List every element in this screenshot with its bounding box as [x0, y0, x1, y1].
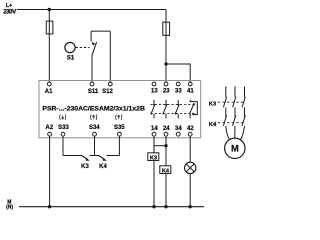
bridge wire 14 to 24	[154, 145, 166, 147]
contactor K3 main contacts	[223, 97, 245, 118]
svg-text:A1: A1	[45, 89, 53, 95]
svg-text:33: 33	[175, 89, 182, 95]
device box PSR relay	[39, 81, 201, 138]
wire K3 coil to neutral	[153, 161, 155, 207]
svg-text:42: 42	[187, 126, 194, 132]
node junction K4/neutral	[164, 205, 167, 208]
contactor coil K3	[148, 153, 159, 161]
terminal S11	[90, 82, 94, 86]
wire K4 coil to neutral	[165, 174, 167, 207]
aux contact K4 blade	[99, 156, 105, 160]
svg-text:PSR-...-230AC/ESAM2/3x1/1x2B: PSR-...-230AC/ESAM2/3x1/1x2B	[42, 106, 145, 113]
mechanical linkage dashed lines inside relay	[151, 104, 198, 106]
wire 14 drop	[153, 136, 155, 153]
estop top bar	[91, 30, 110, 32]
feedback loop wire segments	[63, 155, 82, 157]
svg-text:S11: S11	[88, 89, 99, 95]
wire 24 drop	[165, 136, 167, 166]
terminal 34	[176, 132, 180, 136]
pushbutton S1 (emergency stop actuator)	[65, 42, 75, 52]
relay NO contact 23-24	[163, 100, 167, 119]
svg-text:S1: S1	[67, 56, 75, 62]
svg-text:K3: K3	[209, 101, 217, 107]
wire S34 drop	[94, 136, 96, 155]
relay NO contact 13-14	[151, 100, 155, 119]
terminal 23	[164, 82, 168, 86]
svg-text:S35: S35	[114, 125, 125, 131]
wire S12	[109, 31, 111, 82]
wire S11	[91, 56, 93, 83]
neutral rail M/N	[19, 206, 204, 208]
dashed linkage K3 contacts	[218, 101, 244, 103]
three-phase feeder wires	[226, 86, 245, 97]
node junction lamp/neutral	[189, 205, 192, 208]
terminal S35	[118, 132, 122, 136]
terminal 24	[164, 132, 168, 136]
svg-text:K4: K4	[162, 168, 170, 174]
node junction for 41 branch	[164, 62, 167, 65]
estop NC contact blade	[92, 42, 97, 56]
svg-text:34: 34	[175, 126, 182, 132]
svg-text:(N): (N)	[6, 204, 13, 210]
terminal 41	[188, 82, 192, 86]
svg-text:S33: S33	[58, 125, 69, 131]
indicator lamp	[185, 162, 196, 173]
contactor coil K4	[160, 166, 171, 174]
svg-text:14: 14	[151, 126, 158, 132]
aux contact K3 blade	[82, 156, 88, 160]
svg-text:K3: K3	[150, 155, 157, 161]
terminal 42	[188, 132, 192, 136]
svg-text:41: 41	[187, 89, 194, 95]
svg-text:S12: S12	[102, 89, 113, 95]
wire branch to terminal 41	[166, 64, 190, 82]
motor M	[225, 138, 245, 158]
node junction on 24 wire	[164, 144, 167, 147]
fuse F2	[163, 22, 170, 35]
svg-text:K3: K3	[81, 164, 89, 170]
label arrow up over S35	[116, 114, 122, 120]
terminal 13	[152, 82, 156, 86]
wire A1 drop (through fuse)	[48, 10, 50, 83]
svg-text:M: M	[231, 143, 239, 154]
terminal A2	[48, 132, 52, 136]
label arrow up over S34	[91, 114, 97, 120]
relay NO contact 33-34	[175, 100, 179, 119]
wire 23 drop (through fuse)	[165, 10, 167, 83]
dashed actuator link	[76, 47, 90, 49]
node junction on rail at A1 branch	[48, 8, 51, 11]
terminal S34	[93, 132, 97, 136]
wire S35 drop	[118, 136, 120, 155]
terminal A1	[47, 82, 51, 86]
contactor K4 main contacts	[223, 115, 245, 126]
estop contact arrowhead	[92, 42, 96, 46]
estop fixed stub	[90, 31, 92, 41]
node junction A2/neutral	[48, 205, 51, 208]
fuse F1	[46, 21, 53, 34]
svg-text:24: 24	[163, 126, 170, 132]
svg-text:23: 23	[163, 89, 170, 95]
svg-text:K4: K4	[209, 122, 217, 128]
svg-text:K4: K4	[99, 164, 107, 170]
terminal S33	[61, 132, 65, 136]
svg-text:S34: S34	[89, 125, 100, 131]
svg-text:230V: 230V	[3, 9, 17, 16]
supply rail L+	[17, 9, 166, 11]
node junction K3/neutral	[152, 205, 155, 208]
relay NC contact 41-42	[189, 100, 197, 119]
dashed linkage K4 contacts	[218, 122, 244, 124]
svg-text:13: 13	[151, 89, 158, 95]
wire S33 drop	[62, 136, 64, 155]
terminal 33	[176, 82, 180, 86]
terminal S12	[108, 82, 112, 86]
wire lamp to neutral	[189, 174, 191, 207]
label arrow down over S33	[60, 114, 66, 120]
motor feeder curves	[226, 126, 245, 140]
svg-text:A2: A2	[45, 125, 53, 131]
terminal 14	[152, 132, 156, 136]
wire 42 to lamp	[189, 136, 191, 162]
wire A2 to neutral	[49, 136, 51, 207]
